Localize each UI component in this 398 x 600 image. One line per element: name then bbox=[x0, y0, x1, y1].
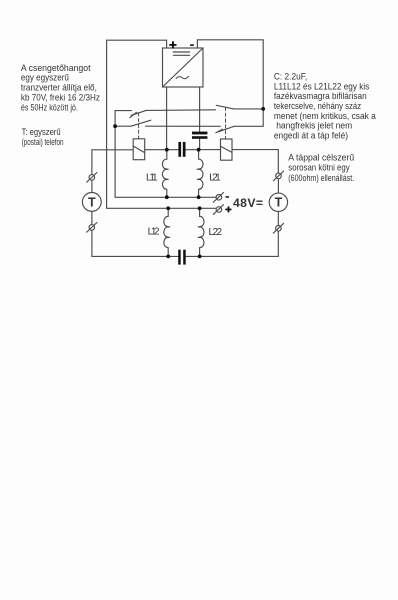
converter U1 DC symbol lines bbox=[173, 51, 189, 53]
wire - rail bbox=[115, 196, 216, 198]
inductor L12 bbox=[164, 208, 170, 256]
wire mid rail left (from left phone branch) bbox=[92, 149, 133, 151]
wire bottom rail left bbox=[92, 255, 178, 257]
inductor L21 bbox=[197, 150, 203, 198]
note: left text block bbox=[21, 63, 100, 148]
psu minus sign bbox=[226, 196, 230, 198]
svg-text:(postai) telefon: (postai) telefon bbox=[22, 137, 64, 148]
capacitor C2 (mid rail series) left plate bbox=[178, 142, 181, 157]
wire top-right loop from converter - terminal bbox=[197, 40, 263, 127]
connector plug J2 (left phone bottom) bbox=[87, 223, 97, 233]
wire mid rail center-left bbox=[145, 149, 179, 151]
wire capacitor C to mid rail bbox=[199, 139, 201, 150]
svg-text:(600ohm) ellenállást.: (600ohm) ellenállást. bbox=[288, 173, 354, 184]
junction node: lower row left bbox=[113, 124, 117, 128]
capacitor C top plate bbox=[192, 132, 207, 135]
connector plug J6 (-48V plus) bbox=[213, 205, 223, 215]
junction node: L11 top bbox=[165, 148, 169, 152]
contact K2b NC slash bbox=[216, 129, 223, 133]
capacitor C3 right plate bbox=[183, 250, 186, 265]
converter U1 box bbox=[163, 48, 204, 87]
wire right phone branch bbox=[277, 150, 279, 174]
contact K1a NC slash bbox=[130, 112, 137, 117]
contact K1a blade (NC) bbox=[131, 110, 146, 115]
wire top-left loop from converter + terminal bbox=[107, 40, 167, 208]
converter plus sign bbox=[169, 44, 176, 46]
wire lower row middle bbox=[146, 125, 221, 127]
converter U1 AC sine symbol bbox=[176, 76, 189, 78]
telephone T2 circle (right) bbox=[269, 193, 287, 211]
junction node: L11 bottom bbox=[165, 195, 169, 199]
wire lower contact row left bbox=[115, 125, 131, 127]
relay coil K1 box bbox=[133, 139, 145, 160]
junction node: L22 bottom bbox=[198, 255, 202, 259]
svg-text:L21: L21 bbox=[209, 172, 221, 183]
connector plug J3 (right phone top) bbox=[273, 171, 283, 181]
note: right text block about C and coils bbox=[274, 72, 377, 142]
wire from lower row junction down to minus rail bbox=[114, 126, 116, 197]
svg-text:engedi át a táp felé): engedi át a táp felé) bbox=[274, 130, 348, 141]
svg-text:T: T bbox=[88, 195, 96, 209]
inductor L22 bbox=[198, 208, 204, 256]
contact K1b blade (NO) bbox=[131, 120, 151, 126]
capacitor C2 right plate bbox=[183, 142, 186, 157]
junction node: right loop upper row bbox=[261, 107, 265, 111]
svg-text:48V=: 48V= bbox=[233, 196, 263, 210]
junction node: L21 top bbox=[197, 148, 201, 152]
svg-text:T: T bbox=[275, 196, 283, 210]
relay coil K1 diagonal bbox=[133, 146, 145, 153]
contact K2b blade (NC) bbox=[218, 126, 234, 131]
wire + rail bbox=[107, 207, 217, 209]
inductor L11 bbox=[162, 150, 168, 198]
svg-text:és 50Hz között jó.: és 50Hz között jó. bbox=[21, 102, 78, 113]
wire upper row right to junction bbox=[233, 108, 263, 110]
connector plug J4 (right phone bottom) bbox=[273, 223, 283, 233]
wire upper contact row bbox=[115, 111, 131, 127]
relay K1 mechanical link (dashed) bbox=[138, 113, 140, 139]
capacitor C bottom plate bbox=[192, 136, 207, 139]
wire converter left bottom terminal down to mid rail bbox=[166, 87, 168, 150]
wire left phone branch bbox=[91, 150, 93, 175]
converter U1 diagonal bbox=[163, 48, 204, 87]
psu plus sign bbox=[225, 209, 231, 211]
connector plug J1 (left phone top) bbox=[87, 173, 97, 183]
telephone T1 circle (left) bbox=[82, 193, 101, 212]
note: right text block about series resistor bbox=[288, 152, 354, 184]
connector plug J5 (-48V minus) bbox=[213, 193, 223, 203]
capacitor C3 (bottom rail series) left plate bbox=[178, 250, 181, 265]
relay coil K2 box bbox=[221, 139, 233, 160]
converter minus sign bbox=[190, 44, 194, 46]
wire mid rail center-right bbox=[186, 149, 221, 151]
svg-text:L22: L22 bbox=[209, 227, 223, 238]
wire upper row middle bbox=[147, 109, 216, 112]
relay coil K2 diagonal bbox=[221, 146, 232, 152]
junction node: L12 bottom bbox=[166, 255, 170, 259]
junction node: L12 top bbox=[166, 206, 170, 210]
wire mid rail right (to right phone branch) bbox=[232, 149, 278, 151]
wire bottom rail right bbox=[186, 255, 278, 257]
contact K2a blade (NO) bbox=[216, 105, 233, 109]
svg-text:L12: L12 bbox=[148, 226, 160, 237]
junction node: L22 top bbox=[198, 206, 202, 210]
svg-text:L11: L11 bbox=[146, 172, 158, 183]
wire converter right bottom terminal down to capacitor C bbox=[199, 87, 201, 131]
junction node: L21 bottom bbox=[197, 195, 201, 199]
relay K2 mechanical link (dashed) bbox=[225, 107, 227, 139]
